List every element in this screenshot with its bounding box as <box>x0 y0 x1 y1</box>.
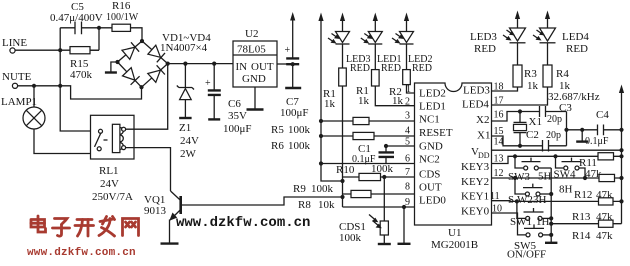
LED1 (left) with arrow top <box>361 13 402 75</box>
node rail join <box>340 179 344 183</box>
node CDS tap <box>382 175 386 179</box>
switch SW5 <box>507 224 551 260</box>
svg-text:100k: 100k <box>371 163 394 175</box>
svg-text:8H: 8H <box>559 184 573 196</box>
wire LED3 column down <box>342 86 344 207</box>
wire VQ1 base row <box>182 197 343 205</box>
LED3 (right) with arrow top <box>470 11 526 66</box>
svg-text:LED0: LED0 <box>419 195 446 207</box>
svg-text:LINE: LINE <box>2 37 27 49</box>
svg-text:9013: 9013 <box>144 205 167 217</box>
node C6 top <box>212 62 216 66</box>
svg-text:S: S <box>508 194 514 206</box>
svg-text:32.687/kHz: 32.687/kHz <box>548 91 600 103</box>
ground C2 C3 C4 <box>576 130 588 142</box>
capacitor C5 <box>50 1 112 34</box>
svg-text:KEY3: KEY3 <box>461 161 490 173</box>
ground C7 <box>285 87 301 89</box>
svg-text:R5: R5 <box>271 124 284 136</box>
svg-text:1k: 1k <box>392 95 404 107</box>
node bridge right <box>166 62 170 66</box>
node bus SW5 <box>549 233 553 237</box>
wire LINE row <box>15 49 99 51</box>
wire C5/R15 right junction <box>98 28 100 50</box>
svg-text:1k: 1k <box>358 95 370 107</box>
svg-text:GND: GND <box>419 141 443 153</box>
switch SW4 <box>554 156 586 180</box>
zener Z1 <box>177 64 199 160</box>
svg-text:R6: R6 <box>271 140 284 152</box>
node bridge top <box>140 39 144 43</box>
wire pin9 row <box>343 206 415 208</box>
svg-text:35V: 35V <box>228 110 247 122</box>
diode VD3 <box>123 68 135 80</box>
resistor R12 <box>574 174 615 201</box>
resistor R13 <box>572 198 613 223</box>
switch SW2 <box>508 178 551 206</box>
svg-text:7: 7 <box>405 167 410 178</box>
svg-text:24V: 24V <box>100 178 119 190</box>
svg-text:1k: 1k <box>527 80 539 92</box>
svg-text:470k: 470k <box>70 69 93 81</box>
node SW2 tap <box>513 176 517 180</box>
svg-text:RED: RED <box>474 43 496 55</box>
svg-text:250V/7A: 250V/7A <box>92 191 133 203</box>
svg-text:14: 14 <box>494 137 504 148</box>
ground Z1 <box>179 117 191 119</box>
ground VQ1 emitter <box>161 242 179 244</box>
transistor VQ1 9013 <box>144 191 181 243</box>
node bridge left <box>115 60 119 64</box>
svg-text:LED4: LED4 <box>562 31 589 43</box>
resistor R14 <box>572 220 613 242</box>
svg-text:+: + <box>205 78 211 89</box>
svg-text:OUT: OUT <box>419 182 442 194</box>
power rail right arrow <box>619 85 624 224</box>
svg-text:LED3: LED3 <box>470 31 497 43</box>
relay RL1 <box>91 115 135 203</box>
capacitor C1 on pin5 <box>352 143 415 165</box>
svg-text:R10: R10 <box>336 164 355 176</box>
wire R16 to bridge top <box>131 28 143 41</box>
LED2 (left) with arrow top <box>392 13 432 75</box>
svg-text:2: 2 <box>405 97 410 108</box>
resistor R11 <box>579 153 614 180</box>
svg-text:24V: 24V <box>180 135 199 147</box>
svg-text:+: + <box>285 45 291 56</box>
svg-text:R16: R16 <box>112 0 131 12</box>
svg-text:R14: R14 <box>572 230 591 242</box>
svg-text:100k: 100k <box>311 183 334 195</box>
wire pin6 row <box>321 163 415 165</box>
svg-text:8: 8 <box>405 182 410 193</box>
power +5V rail arrow <box>318 13 342 182</box>
svg-text:www.dzkfw.com.cn: www.dzkfw.com.cn <box>27 247 136 259</box>
resistor R3 <box>513 65 539 92</box>
svg-text:5: 5 <box>405 137 410 148</box>
wire R14 row <box>551 223 621 225</box>
svg-text:RL1: RL1 <box>99 165 119 177</box>
capacitor C2 <box>526 129 567 152</box>
bridge rectifier VD1~VD4 <box>118 32 212 87</box>
svg-text:SW3: SW3 <box>508 171 531 183</box>
wire U2 out <box>277 63 293 65</box>
diode VD4 <box>148 70 161 82</box>
regulator U2 78L05 <box>233 28 277 87</box>
wire pin11 KEY1 row <box>492 200 622 203</box>
node Z1 top <box>183 62 187 66</box>
svg-text:NC2: NC2 <box>419 154 440 166</box>
photoresistor CDS1 <box>339 177 388 244</box>
wire pin13 KEY3 row <box>492 156 622 163</box>
node rail KEY1 <box>619 199 623 203</box>
svg-text:20p: 20p <box>547 114 562 125</box>
svg-text:6: 6 <box>405 154 410 165</box>
wire DC+ rail to U2 <box>168 63 233 65</box>
node SW4 tap <box>553 154 557 158</box>
node bus SW2 <box>549 192 553 196</box>
svg-text:R13: R13 <box>572 211 591 223</box>
resistor R16 <box>106 0 139 31</box>
svg-text:DD: DD <box>478 151 490 160</box>
svg-text:3: 3 <box>405 111 410 122</box>
svg-text:RED: RED <box>566 43 588 55</box>
terminal NUTE <box>2 71 32 88</box>
svg-text:LED3: LED3 <box>463 85 490 97</box>
node C4 row left <box>564 128 568 132</box>
svg-text:C4: C4 <box>596 109 609 121</box>
light arrows <box>328 34 338 43</box>
svg-text:C6: C6 <box>228 98 241 110</box>
wire pin16 X2 row <box>492 112 540 122</box>
ground U2 GND <box>247 87 264 110</box>
node NUTE junction <box>32 84 36 88</box>
svg-text:20p: 20p <box>546 130 561 141</box>
capacitor C6 <box>205 64 252 135</box>
wire crystal caps common <box>566 112 568 146</box>
svg-text:100k: 100k <box>339 232 362 244</box>
wire relay coil top to DC+ <box>126 64 168 130</box>
svg-text:GND: GND <box>242 73 266 85</box>
crystal X1 <box>514 112 542 146</box>
svg-text:NUTE: NUTE <box>2 71 32 83</box>
svg-text:RED: RED <box>381 63 401 74</box>
resistor R1 (LED1) <box>356 70 379 107</box>
svg-text:KEY2: KEY2 <box>461 176 489 188</box>
resistor R15 <box>70 47 99 81</box>
svg-text:5H: 5H <box>538 171 552 183</box>
svg-text:9: 9 <box>405 197 410 208</box>
IC U1 MG2001B <box>415 83 492 251</box>
wire NUTE row <box>18 86 142 99</box>
node rail NC2 tap <box>319 161 323 165</box>
terminal LINE <box>2 37 27 53</box>
node rail C4 <box>619 128 623 132</box>
svg-text:W2: W2 <box>517 194 533 206</box>
svg-text:C2: C2 <box>526 129 539 141</box>
svg-text:100k: 100k <box>288 124 311 136</box>
svg-text:ON/OFF: ON/OFF <box>507 249 546 261</box>
svg-text:U1: U1 <box>448 227 461 239</box>
resistor R5 row pin3 <box>271 117 415 136</box>
svg-text:R3: R3 <box>524 68 537 80</box>
ground CDS1 <box>378 243 391 245</box>
svg-text:LAMP1: LAMP1 <box>1 96 37 108</box>
svg-text:10k: 10k <box>318 199 335 211</box>
svg-text:MG2001B: MG2001B <box>431 239 478 251</box>
svg-text:OUT: OUT <box>251 61 274 73</box>
svg-text:KEY0: KEY0 <box>461 206 490 218</box>
wire pin14 VDD row <box>492 149 622 151</box>
node X1 bottom <box>518 144 522 148</box>
capacitor C7 <box>280 12 309 119</box>
LED4 (right) with arrow top <box>533 11 589 66</box>
svg-text:0.47μ/400V: 0.47μ/400V <box>50 12 103 24</box>
svg-text:X2: X2 <box>476 114 489 126</box>
svg-text:100μF: 100μF <box>223 123 252 135</box>
svg-text:1N4007×4: 1N4007×4 <box>160 42 208 54</box>
node X1 top <box>518 109 522 113</box>
svg-text:0.1μF: 0.1μF <box>585 136 609 147</box>
node rail R6 tap <box>319 134 323 138</box>
svg-text:X1: X1 <box>477 130 490 142</box>
svg-text:RED: RED <box>412 63 432 74</box>
svg-text:www.dzkfw.com.cn: www.dzkfw.com.cn <box>176 215 310 231</box>
svg-text:100k: 100k <box>288 140 311 152</box>
watermark red site name (drawn glyphs) <box>31 216 139 236</box>
svg-text:U2: U2 <box>245 28 258 40</box>
resistor R1 (LED3) <box>323 68 346 110</box>
node C4 ground tap <box>580 128 584 132</box>
lamp LAMP1 <box>1 86 91 154</box>
node SW4 join <box>583 176 587 180</box>
wire LED1 column to pin2 <box>375 86 414 106</box>
wire LED2 column to pin1 <box>407 85 415 93</box>
wire pin10 KEY0 row <box>492 213 526 235</box>
svg-text:R4: R4 <box>556 68 569 80</box>
resistor R4 <box>543 65 571 92</box>
svg-text:1: 1 <box>406 84 411 95</box>
svg-text:1H: 1H <box>536 216 550 228</box>
svg-text:X1: X1 <box>529 116 542 128</box>
wire R3 to pin18 <box>492 87 518 91</box>
svg-text:1k: 1k <box>324 98 336 110</box>
svg-text:LED2: LED2 <box>419 88 446 100</box>
capacitor C4 <box>567 109 622 147</box>
svg-text:CDS: CDS <box>419 169 440 181</box>
wire pin15 X1 row <box>492 136 543 146</box>
svg-text:IN: IN <box>236 61 248 73</box>
svg-text:KEY1: KEY1 <box>461 191 489 203</box>
resistor R10 row pin7 <box>336 163 415 181</box>
ground pin9 <box>398 205 411 244</box>
node SW3 tap <box>513 154 517 158</box>
node bus SW1 <box>549 216 553 220</box>
svg-text:78L05: 78L05 <box>237 44 266 56</box>
node left vertical crossing <box>58 84 62 88</box>
svg-text:SW1: SW1 <box>510 216 532 228</box>
svg-text:NC1: NC1 <box>419 114 440 126</box>
node rail KEY3 <box>619 154 623 158</box>
svg-text:47k: 47k <box>596 230 613 242</box>
ground C6 <box>208 118 220 120</box>
svg-text:RED: RED <box>350 63 370 74</box>
node C7 <box>291 62 295 66</box>
wire left vertical <box>60 28 98 131</box>
resistor R2 (LED2) <box>389 70 410 107</box>
svg-text:16: 16 <box>494 110 504 121</box>
diode VD1 <box>122 47 135 59</box>
svg-text:Z1: Z1 <box>179 122 191 134</box>
svg-text:100μF: 100μF <box>280 107 309 119</box>
node base join <box>340 195 344 199</box>
svg-text:LED1: LED1 <box>419 101 446 113</box>
ground bus <box>545 235 557 243</box>
svg-text:SW4: SW4 <box>554 169 577 181</box>
svg-text:R8: R8 <box>298 199 311 211</box>
node rail R5 tap <box>319 119 323 123</box>
node SW1 tap <box>515 199 519 203</box>
svg-text:2W: 2W <box>180 148 197 160</box>
svg-text:R9: R9 <box>293 183 306 195</box>
svg-text:LED4: LED4 <box>462 99 489 111</box>
node rail KEY2 <box>619 176 623 180</box>
switch SW1 <box>510 201 551 228</box>
LED3 (left) with arrow top <box>328 13 370 75</box>
wire relay coil bottom to collector <box>126 148 171 191</box>
node bridge bottom <box>139 85 143 89</box>
svg-text:4: 4 <box>405 126 410 137</box>
node bus R14 <box>549 222 553 226</box>
diode VD2 <box>148 45 161 57</box>
node rail VDD <box>619 148 623 152</box>
resistor R6 row pin4 <box>271 132 415 152</box>
svg-text:3H: 3H <box>533 194 547 206</box>
svg-text:100/1W: 100/1W <box>106 12 139 23</box>
wire switches common bus <box>550 168 552 235</box>
wire pin12 KEY2 row <box>492 177 622 179</box>
svg-text:R12: R12 <box>574 189 592 201</box>
switch SW3 <box>508 156 552 183</box>
wire R4 to pin17 <box>492 87 548 105</box>
resistor R9 row pin8 <box>293 183 415 198</box>
node LINE junction <box>58 48 62 52</box>
svg-text:RESET: RESET <box>419 127 453 139</box>
svg-text:C3: C3 <box>559 102 572 114</box>
capacitor C3 <box>540 102 573 125</box>
ground bridge left <box>105 62 118 73</box>
